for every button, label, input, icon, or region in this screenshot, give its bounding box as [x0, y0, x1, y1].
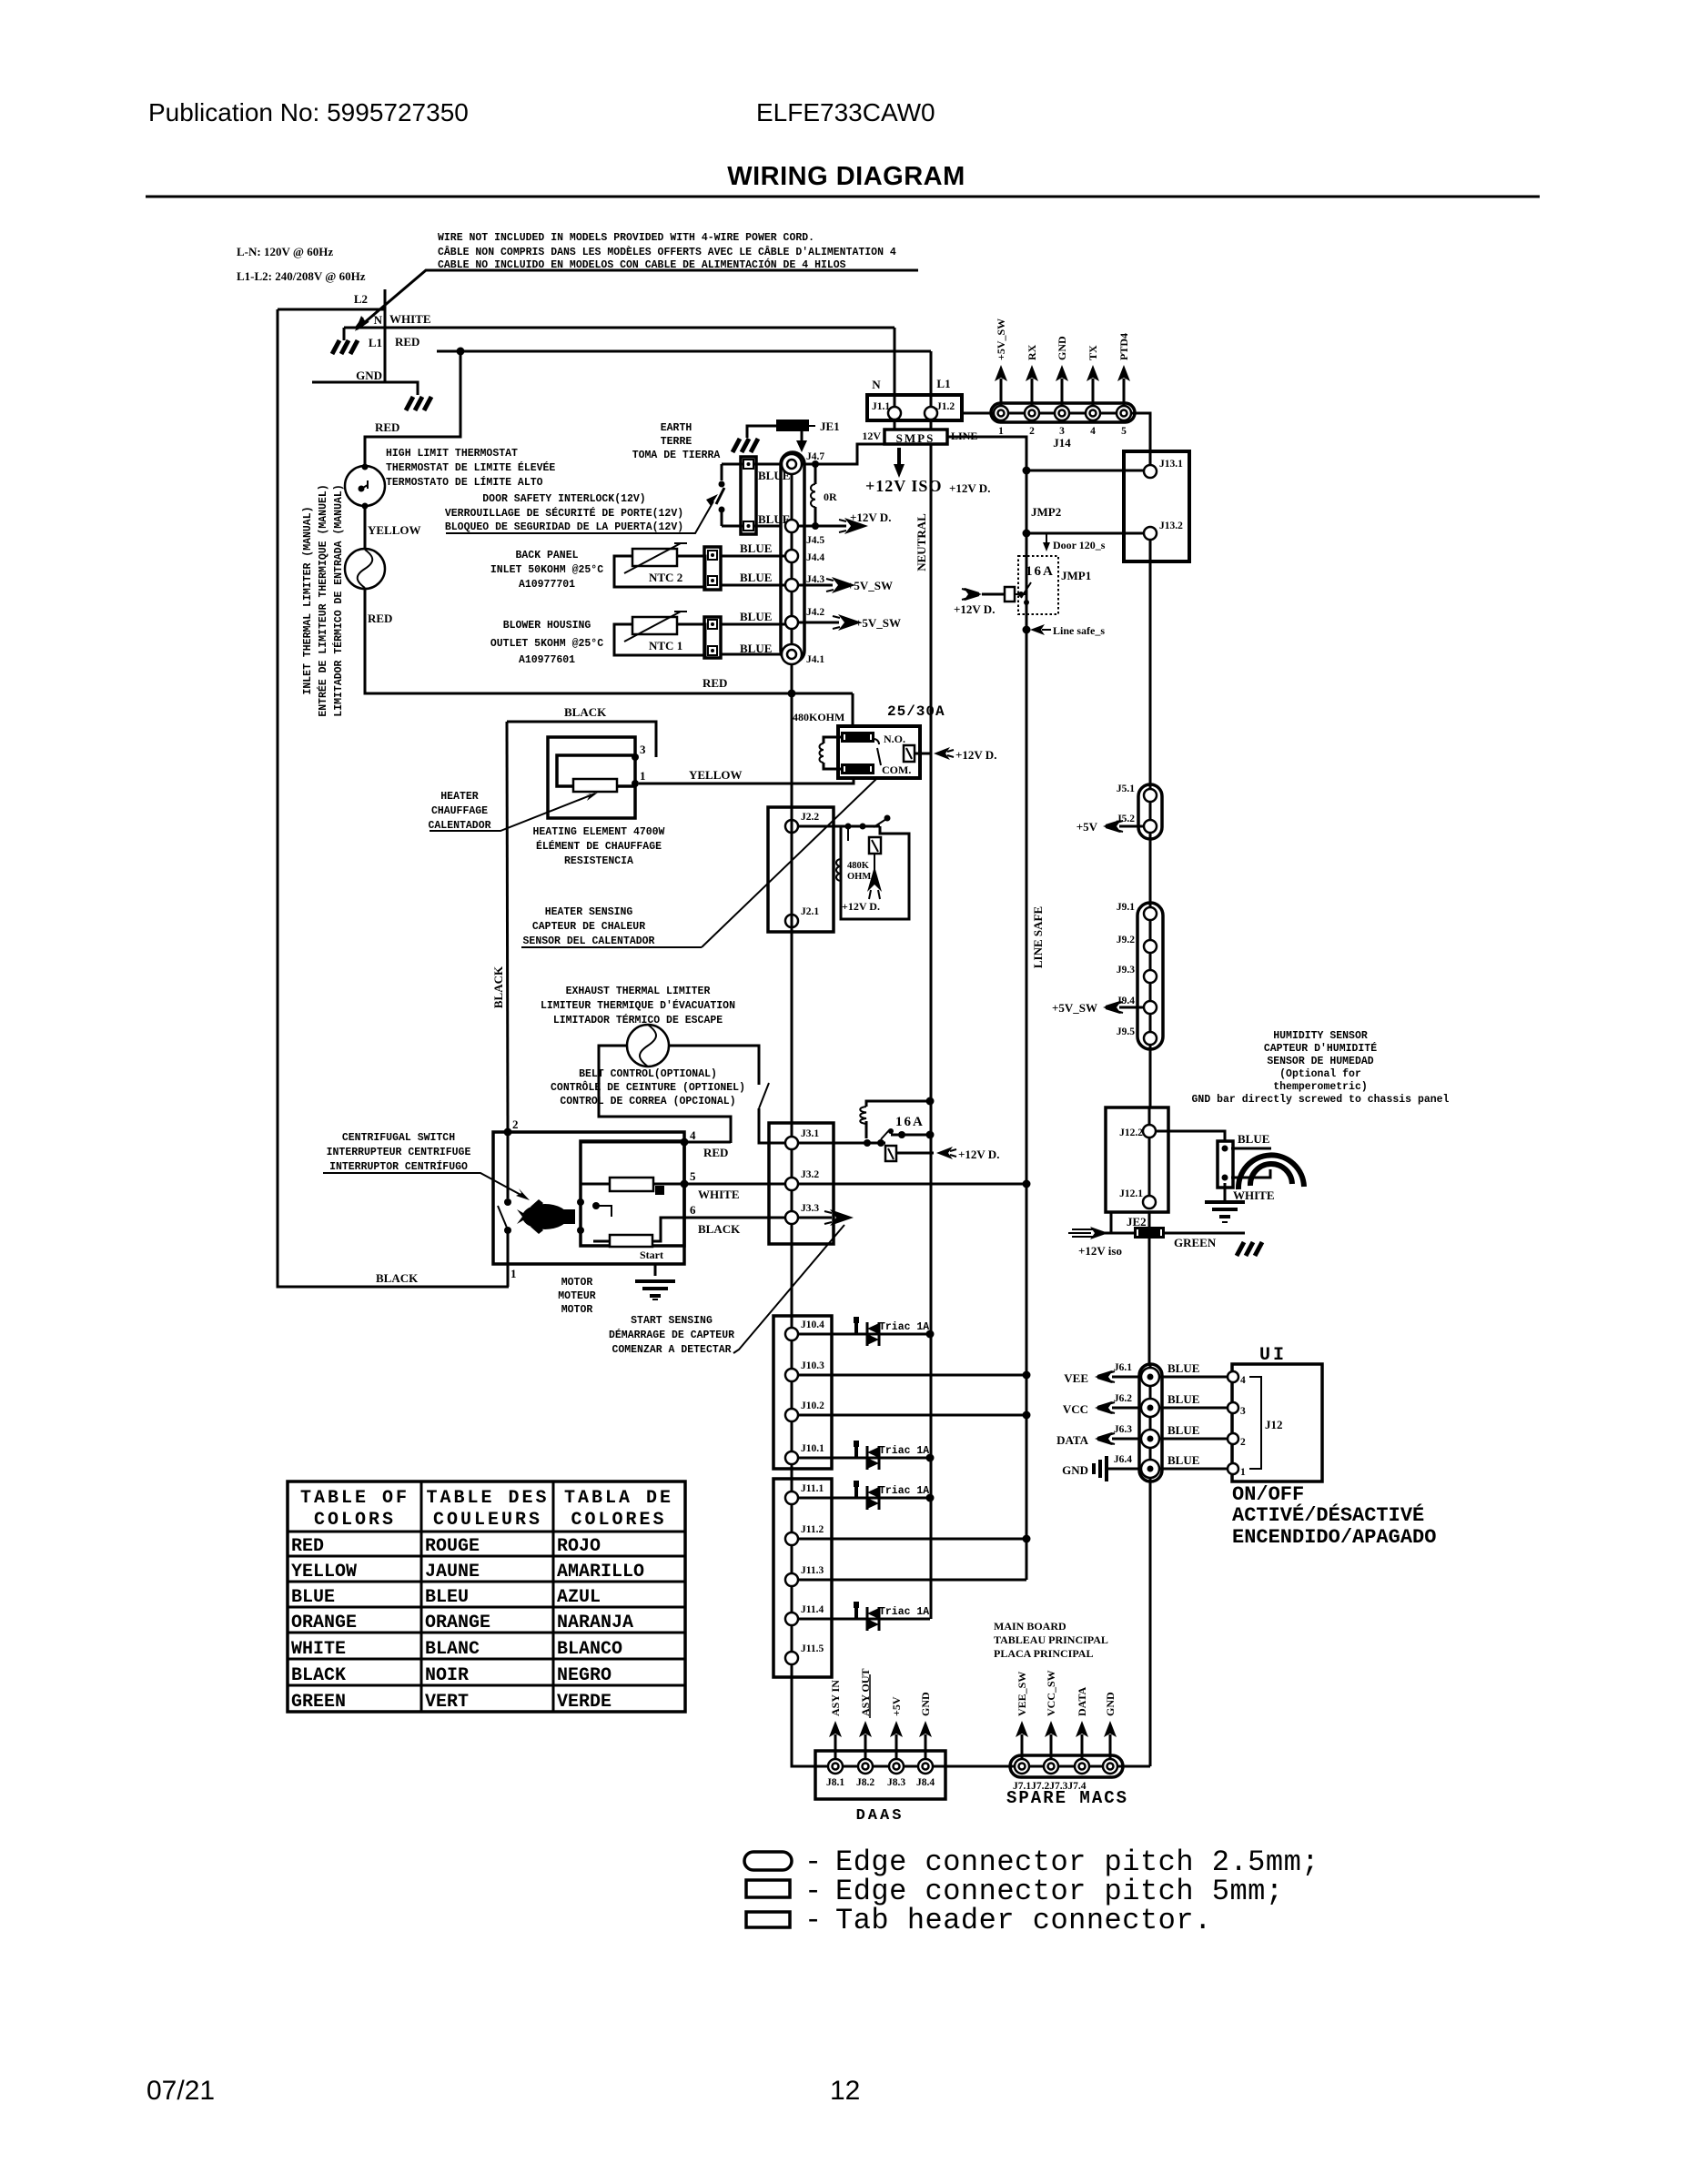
svg-text:DATA: DATA — [1056, 1433, 1089, 1447]
relay contact bar bottom — [841, 763, 874, 774]
connector J7 spare macs pill — [1010, 1755, 1123, 1777]
svg-text:J12.1: J12.1 — [1119, 1188, 1143, 1199]
svg-text:J5.1: J5.1 — [1117, 784, 1135, 794]
svg-text:MOTOR: MOTOR — [561, 1277, 593, 1289]
svg-text:JE1: JE1 — [820, 420, 840, 433]
svg-text:A10977701: A10977701 — [519, 579, 575, 591]
svg-text:YELLOW: YELLOW — [291, 1562, 357, 1582]
pin J3.3 — [785, 1211, 798, 1224]
svg-text:VEE: VEE — [1064, 1371, 1088, 1385]
svg-text:GND: GND — [1062, 1463, 1088, 1477]
pin J9.2 — [1144, 940, 1157, 953]
wire JE2 to green ground — [1165, 1232, 1245, 1235]
wire L1 RED horizontal — [437, 350, 931, 353]
svg-text:CENTRIFUGAL SWITCH: CENTRIFUGAL SWITCH — [342, 1132, 455, 1144]
svg-text:-: - — [804, 1904, 823, 1937]
svg-text:NTC 2: NTC 2 — [649, 571, 682, 584]
svg-text:INTERRUPTEUR CENTRIFUGE: INTERRUPTEUR CENTRIFUGE — [327, 1147, 471, 1158]
JE2 ferrite bar — [1134, 1227, 1165, 1239]
wire J3.1 to 16A relay — [798, 1142, 885, 1145]
main winding — [610, 1178, 653, 1191]
svg-text:RX: RX — [1026, 344, 1038, 360]
svg-text:ASY IN: ASY IN — [829, 1680, 842, 1716]
centrifugal contacts — [507, 1132, 510, 1198]
svg-text:RED: RED — [702, 676, 727, 690]
small contact square — [655, 1186, 664, 1195]
svg-text:RED: RED — [375, 420, 399, 434]
svg-text:BLACK: BLACK — [291, 1665, 346, 1686]
cable leader line with underline — [359, 270, 918, 328]
svg-text:TABLE OF: TABLE OF — [300, 1488, 409, 1509]
door interlock connector X1 — [741, 457, 756, 534]
heater element small box — [573, 779, 617, 792]
svg-text:COMENZAR A DETECTAR: COMENZAR A DETECTAR — [612, 1344, 731, 1356]
wire red drop to thermostat — [365, 351, 460, 467]
svg-text:N: N — [872, 378, 881, 391]
door switch S2 — [721, 464, 723, 526]
NTC1 body — [632, 617, 677, 634]
svg-text:JMP1: JMP1 — [1061, 569, 1091, 582]
svg-text:J9.2: J9.2 — [1117, 935, 1135, 945]
wire J6.4 to UI pin1 — [1159, 1468, 1227, 1471]
svg-text:J4.5: J4.5 — [806, 535, 824, 546]
pin J9.5 — [1144, 1032, 1157, 1045]
bus through J12 — [1148, 1137, 1151, 1196]
wire LINE to J13.1 — [1026, 470, 1144, 472]
motor start contacts — [577, 1198, 584, 1206]
connector J2 box — [768, 807, 834, 932]
svg-text:Triac 1A: Triac 1A — [879, 1321, 929, 1333]
connector J8 DAAS box — [815, 1751, 945, 1799]
svg-text:HEATING ELEMENT 4700W: HEATING ELEMENT 4700W — [533, 826, 665, 838]
pin J4.5 — [785, 520, 798, 532]
svg-text:MAIN BOARD: MAIN BOARD — [994, 1620, 1066, 1633]
svg-text:GREEN: GREEN — [1174, 1236, 1217, 1249]
svg-text:L-N: 120V @ 60Hz: L-N: 120V @ 60Hz — [237, 245, 333, 258]
wire sensor to gnd — [1224, 1183, 1227, 1200]
start wire down to ground — [654, 1264, 657, 1276]
NTC2 connector — [704, 547, 721, 590]
pin J10.2 — [785, 1409, 798, 1421]
+5V_SW arrow — [1119, 1006, 1144, 1009]
svg-text:LIMITADOR TÉRMICO DE ENTRADA (: LIMITADOR TÉRMICO DE ENTRADA (MANUAL) — [332, 484, 345, 716]
svg-text:EARTH: EARTH — [661, 422, 692, 434]
svg-text:RED: RED — [291, 1536, 324, 1557]
pin J11.1 — [785, 1491, 798, 1504]
wire J14.5 to J13.1 — [1131, 413, 1150, 465]
svg-text:GND: GND — [1056, 336, 1068, 360]
svg-text:Door 120_s: Door 120_s — [1053, 539, 1106, 551]
sensing switch to relay — [874, 819, 886, 827]
svg-text:1: 1 — [998, 426, 1004, 437]
svg-text:L2: L2 — [354, 292, 368, 306]
bus JE2 down to J6 — [1148, 1239, 1151, 1364]
ground at GND stub — [406, 397, 431, 410]
svg-text:ACTIVÉ/DÉSACTIVÉ: ACTIVÉ/DÉSACTIVÉ — [1232, 1503, 1424, 1527]
svg-text:OUTLET 5KOHM @25°C: OUTLET 5KOHM @25°C — [490, 638, 603, 650]
svg-text:ORANGE: ORANGE — [425, 1613, 490, 1633]
svg-text:MOTOR: MOTOR — [561, 1304, 593, 1316]
svg-text:J6.3: J6.3 — [1114, 1424, 1132, 1435]
wire J4.3 +5V_SW arrow — [798, 584, 833, 587]
svg-text:BLUE: BLUE — [740, 610, 772, 623]
svg-text:J14: J14 — [1053, 436, 1071, 450]
legend pill symbol — [744, 1852, 792, 1870]
svg-text:J11.5: J11.5 — [801, 1643, 824, 1654]
svg-text:4: 4 — [1240, 1375, 1246, 1386]
svg-text:ROUGE: ROUGE — [425, 1536, 480, 1557]
svg-text:BLUE: BLUE — [1167, 1423, 1199, 1437]
pin J11.3 — [785, 1573, 798, 1586]
winding connects — [581, 1184, 610, 1241]
pin J6.1 — [1141, 1368, 1159, 1386]
svg-text:RED: RED — [703, 1146, 728, 1159]
svg-text:6: 6 — [690, 1203, 696, 1217]
vertical black line — [507, 722, 508, 1132]
connector J10 box — [773, 1316, 832, 1469]
svg-text:J6.4: J6.4 — [1114, 1454, 1132, 1465]
connector J14 pill — [991, 403, 1135, 422]
bus through J2 down — [791, 693, 793, 1766]
pin J3.1 — [785, 1137, 798, 1149]
svg-text:TABLA DE: TABLA DE — [564, 1488, 673, 1509]
svg-text:OHM: OHM — [847, 872, 871, 882]
JE1 ferrite bar — [776, 420, 809, 431]
NEUTRAL line down from SMPS — [930, 444, 933, 1619]
svg-text:L1-L2: 240/208V @ 60Hz: L1-L2: 240/208V @ 60Hz — [237, 269, 366, 283]
pin J4.4 — [785, 550, 798, 562]
triac J10.4 — [854, 1317, 879, 1346]
svg-text:HEATER SENSING: HEATER SENSING — [545, 906, 633, 918]
DATA arrow — [1112, 1438, 1141, 1441]
pin J1.1 — [888, 407, 901, 420]
svg-text:VERT: VERT — [425, 1692, 469, 1713]
J14 pins — [994, 406, 1131, 420]
connector J9 pill — [1137, 903, 1163, 1049]
wire relay to +12V D. — [915, 753, 931, 755]
motor inner box — [581, 1141, 684, 1246]
svg-text:GND bar directly screwed to ch: GND bar directly screwed to chassis pane… — [1192, 1094, 1450, 1106]
ground green — [1237, 1242, 1262, 1256]
NTC2 body — [632, 549, 677, 566]
wire J11.4 triac row — [798, 1618, 930, 1621]
pin J11.2 — [785, 1532, 798, 1545]
wire J6.3 to UI pin2 — [1159, 1438, 1227, 1441]
pin J9.1 — [1144, 907, 1157, 920]
white wire to line safe — [798, 1183, 1026, 1186]
wire red down to J1.2 — [930, 351, 933, 407]
high limit thermostat TH1 — [345, 466, 385, 506]
svg-text:BLUE: BLUE — [1167, 1453, 1199, 1467]
svg-text:SENSOR DE HUMEDAD: SENSOR DE HUMEDAD — [1267, 1056, 1373, 1067]
svg-text:J6.1: J6.1 — [1114, 1362, 1132, 1373]
svg-text:DAAS: DAAS — [856, 1807, 905, 1825]
wire J12.2 to sensor — [1156, 1131, 1225, 1141]
wire J10.1 triac row — [798, 1457, 930, 1460]
wire connector to J4.5 — [753, 525, 781, 528]
wires NTC2 to J4 — [721, 555, 785, 558]
connector J5 pill — [1138, 784, 1162, 839]
resistor 0R — [814, 464, 817, 526]
svg-text:J3.2: J3.2 — [801, 1169, 819, 1180]
wire J6.2 to UI pin3 — [1159, 1407, 1227, 1410]
svg-text:GND: GND — [356, 369, 382, 382]
sensing scr symbol — [847, 829, 849, 841]
heater black top loop — [507, 722, 656, 757]
svg-text:RED: RED — [395, 335, 419, 349]
svg-text:+5V_SW: +5V_SW — [847, 579, 893, 592]
svg-text:RESISTENCIA: RESISTENCIA — [564, 855, 633, 867]
wire white down to J1.1 — [894, 328, 896, 407]
relay K1 box — [838, 726, 920, 778]
Line safe_s arrow — [1023, 626, 1031, 634]
svg-text:5: 5 — [1121, 426, 1127, 437]
connector J1 box — [867, 395, 962, 420]
NTC2 loop — [614, 556, 705, 587]
svg-text:LIMITADOR TÉRMICO DE ESCAPE: LIMITADOR TÉRMICO DE ESCAPE — [553, 1014, 723, 1026]
wire L2 stub vertical — [384, 289, 387, 382]
leader COM to heater sensing — [702, 779, 876, 947]
svg-text:BLUE: BLUE — [291, 1587, 335, 1608]
humidity sensor body — [1218, 1141, 1233, 1188]
16A output triac — [885, 1146, 896, 1161]
svg-text:ENCENDIDO/APAGADO: ENCENDIDO/APAGADO — [1232, 1526, 1436, 1549]
legend rect 5mm symbol — [746, 1880, 790, 1897]
junction on red wire — [457, 348, 465, 356]
svg-text:LIMITEUR THERMIQUE D'ÉVACUATIO: LIMITEUR THERMIQUE D'ÉVACUATION — [541, 999, 735, 1012]
inlet thermal limiter — [345, 549, 385, 589]
svg-text:(Optional for: (Optional for — [1279, 1068, 1361, 1080]
wires NTC1 to J4 — [721, 623, 785, 626]
svg-text:J11.2: J11.2 — [801, 1524, 824, 1535]
svg-text:Triac 1A: Triac 1A — [879, 1445, 929, 1457]
svg-text:5: 5 — [690, 1169, 696, 1183]
svg-text:J10.1: J10.1 — [801, 1443, 824, 1454]
svg-text:J11.4: J11.4 — [801, 1604, 824, 1615]
wire N WHITE horizontal — [344, 327, 895, 329]
belt lever — [759, 1083, 769, 1108]
svg-text:HUMIDITY SENSOR: HUMIDITY SENSOR — [1273, 1030, 1368, 1042]
svg-text:COM.: COM. — [882, 763, 911, 776]
pin J10.1 — [785, 1451, 798, 1464]
svg-text:3: 3 — [640, 743, 646, 756]
svg-text:J4.2: J4.2 — [806, 607, 824, 618]
svg-text:TERRE: TERRE — [661, 436, 692, 448]
J14 arrows up — [995, 365, 1130, 406]
svg-text:AZUL: AZUL — [557, 1587, 601, 1608]
svg-text:ÉLÉMENT DE CHAUFFAGE: ÉLÉMENT DE CHAUFFAGE — [536, 840, 662, 853]
svg-text:1: 1 — [640, 769, 646, 783]
svg-text:themperometric): themperometric) — [1273, 1081, 1368, 1093]
svg-text:BLACK: BLACK — [564, 705, 607, 719]
svg-text:J9.3: J9.3 — [1117, 965, 1135, 976]
heater leader — [430, 794, 595, 831]
svg-text:Start: Start — [640, 1249, 663, 1261]
svg-text:JMP2: JMP2 — [1031, 505, 1061, 519]
pin J4.7 — [782, 454, 802, 474]
wire L2 to left corner — [278, 308, 385, 311]
underline + leader to door switch — [446, 501, 713, 533]
svg-text:COULEURS: COULEURS — [433, 1510, 542, 1531]
svg-text:CHAUFFAGE: CHAUFFAGE — [431, 805, 488, 817]
svg-text:Triac 1A: Triac 1A — [879, 1606, 929, 1618]
wire left outer loop — [278, 309, 509, 1287]
svg-text:J8.2: J8.2 — [856, 1777, 874, 1788]
svg-text:VCC_SW: VCC_SW — [1045, 1670, 1057, 1716]
svg-text:WIRING DIAGRAM: WIRING DIAGRAM — [727, 162, 965, 191]
svg-text:BLUE: BLUE — [740, 571, 772, 584]
pin J6.2 — [1141, 1399, 1159, 1417]
svg-text:12V: 12V — [862, 430, 881, 442]
svg-text:BLUE: BLUE — [1238, 1132, 1269, 1146]
heater outer box — [548, 737, 635, 818]
+12V ISO arrow down — [897, 448, 901, 466]
heater inner box — [557, 755, 635, 786]
svg-text:VERROUILLAGE DE SÉCURITÉ DE PO: VERROUILLAGE DE SÉCURITÉ DE PORTE(12V) — [445, 507, 683, 520]
svg-text:L1: L1 — [369, 336, 382, 349]
svg-text:GREEN: GREEN — [291, 1692, 346, 1713]
svg-text:COLORS: COLORS — [314, 1510, 396, 1531]
svg-text:HEATER: HEATER — [440, 791, 479, 803]
pin J1.2 — [925, 407, 937, 420]
JE1 down arrow to J4 — [801, 431, 804, 440]
pin J4.2 — [785, 616, 798, 629]
pin 3 — [632, 753, 639, 761]
svg-text:J12.2: J12.2 — [1119, 1127, 1143, 1138]
pin J10.4 — [785, 1328, 798, 1340]
wire J1 to J14 pill — [962, 412, 993, 415]
svg-text:BLANCO: BLANCO — [557, 1639, 622, 1660]
start winding — [610, 1235, 652, 1247]
pin J11.4 — [785, 1613, 798, 1625]
svg-text:BLANC: BLANC — [425, 1639, 480, 1660]
wifi arcs — [1238, 1155, 1304, 1189]
480K OHM coil resistor — [836, 859, 841, 881]
pin J4.1 — [782, 644, 802, 664]
svg-text:J10.2: J10.2 — [801, 1400, 824, 1411]
svg-text:J4.3: J4.3 — [806, 574, 824, 585]
svg-text:INTERRUPTOR CENTRÍFUGO: INTERRUPTOR CENTRÍFUGO — [329, 1160, 468, 1173]
svg-text:NEUTRAL: NEUTRAL — [915, 513, 928, 571]
relay contact bar top — [841, 732, 874, 743]
ground earth symbol — [733, 439, 758, 452]
svg-text:BLOWER HOUSING: BLOWER HOUSING — [503, 620, 591, 632]
ground bars sensor — [1205, 1202, 1245, 1217]
connector J6 pill — [1139, 1364, 1162, 1481]
cable arrowhead at N junction — [355, 316, 367, 331]
svg-text:BACK PANEL: BACK PANEL — [515, 550, 578, 561]
svg-text:BLEU: BLEU — [425, 1587, 469, 1608]
svg-text:0R: 0R — [824, 490, 837, 503]
svg-text:J4.1: J4.1 — [806, 654, 824, 665]
bus J6 down to spare macs — [1149, 1481, 1152, 1766]
pin J3.2 — [785, 1178, 798, 1190]
wire J11.2 to line safe — [798, 1538, 1026, 1541]
svg-text:2: 2 — [512, 1117, 519, 1131]
svg-text:+12V D.: +12V D. — [850, 511, 891, 524]
svg-text:N.O.: N.O. — [884, 733, 905, 745]
svg-text:+5V: +5V — [890, 1696, 903, 1716]
wire J11.1 triac row — [798, 1497, 930, 1500]
svg-text:16A: 16A — [1026, 564, 1055, 579]
wire limiter down to red bus — [365, 588, 853, 693]
NTC1 loop — [614, 624, 705, 655]
JMP1 dashed box — [1018, 556, 1058, 614]
wire thermostat to limiter — [364, 505, 367, 550]
svg-text:START SENSING: START SENSING — [631, 1315, 713, 1327]
motor outer box — [493, 1132, 684, 1264]
svg-text:12: 12 — [830, 2076, 860, 2106]
relay coil — [824, 737, 841, 769]
J7 pins — [1015, 1759, 1117, 1774]
wire J3.3 arrow out — [798, 1217, 832, 1219]
relay lever — [874, 739, 881, 765]
svg-text:2: 2 — [1240, 1437, 1246, 1448]
svg-text:PLACA PRINCIPAL: PLACA PRINCIPAL — [994, 1647, 1093, 1660]
svg-text:GND: GND — [1104, 1692, 1117, 1716]
wire J10.2 to line safe — [798, 1414, 1026, 1417]
svg-text:BLOQUEO DE SEGURIDAD DE LA PUE: BLOQUEO DE SEGURIDAD DE LA PUERTA(12V) — [445, 521, 683, 533]
svg-text:Tab header connector.: Tab header connector. — [835, 1904, 1212, 1937]
wire yellow heater to relay — [639, 778, 854, 784]
pin J5.1 — [1144, 789, 1157, 802]
svg-text:A10977601: A10977601 — [519, 654, 575, 666]
JE2 stub box — [1111, 1212, 1149, 1233]
svg-text:+5V_SW: +5V_SW — [855, 616, 901, 630]
svg-text:MOTEUR: MOTEUR — [558, 1290, 596, 1302]
16A relay M coil — [866, 1101, 930, 1138]
svg-text:WHITE: WHITE — [389, 312, 431, 326]
svg-text:WIRE NOT INCLUDED IN MODELS PR: WIRE NOT INCLUDED IN MODELS PROVIDED WIT… — [438, 232, 814, 244]
svg-text:BLACK: BLACK — [491, 966, 505, 1008]
svg-text:+12V D.: +12V D. — [954, 602, 995, 616]
svg-text:CONTRÔLE DE CEINTURE (OPTIONEL: CONTRÔLE DE CEINTURE (OPTIONEL) — [551, 1081, 745, 1094]
+12V iso arrow — [1090, 1227, 1108, 1239]
svg-text:L1: L1 — [936, 377, 950, 390]
svg-text:JAUNE: JAUNE — [425, 1562, 480, 1582]
svg-text:J3.1: J3.1 — [801, 1128, 819, 1139]
inner box top extension wire — [581, 1141, 731, 1144]
svg-text:BLUE: BLUE — [1167, 1361, 1199, 1375]
svg-text:N: N — [374, 313, 383, 327]
wire J11.3 to line safe end — [798, 1579, 1026, 1582]
svg-text:BLACK: BLACK — [698, 1222, 741, 1236]
UI pin 1 — [1228, 1463, 1238, 1474]
svg-text:TABLEAU PRINCIPAL: TABLEAU PRINCIPAL — [994, 1633, 1108, 1646]
svg-text:J1.2: J1.2 — [936, 401, 955, 412]
svg-text:SPARE MACS: SPARE MACS — [1006, 1788, 1128, 1808]
svg-text:J13.2: J13.2 — [1159, 521, 1183, 531]
GND bars — [1108, 1468, 1141, 1471]
svg-text:BLUE: BLUE — [1167, 1392, 1199, 1406]
svg-text:LINE SAFE: LINE SAFE — [1031, 906, 1045, 968]
svg-text:J9.4: J9.4 — [1117, 996, 1135, 1006]
UI pin 4 — [1228, 1371, 1238, 1382]
wire J10.4 triac row — [798, 1333, 930, 1336]
svg-text:TOMA DE TIERRA: TOMA DE TIERRA — [632, 450, 721, 461]
svg-text:JE2: JE2 — [1127, 1215, 1147, 1228]
svg-text:BELT CONTROL(OPTIONAL): BELT CONTROL(OPTIONAL) — [579, 1068, 717, 1080]
wire J4.5 +12V D. arrow — [798, 525, 846, 528]
svg-text:SMPS: SMPS — [896, 431, 935, 445]
pin J13.2 — [1144, 527, 1157, 540]
wire J6.1 to UI pin4 — [1159, 1376, 1227, 1379]
J12 bracket — [1249, 1377, 1261, 1469]
svg-text:J10.4: J10.4 — [801, 1319, 824, 1330]
svg-text:BLACK: BLACK — [376, 1271, 419, 1285]
svg-text:SENSOR DEL CALENTADOR: SENSOR DEL CALENTADOR — [523, 935, 655, 947]
svg-text:YELLOW: YELLOW — [689, 768, 743, 782]
